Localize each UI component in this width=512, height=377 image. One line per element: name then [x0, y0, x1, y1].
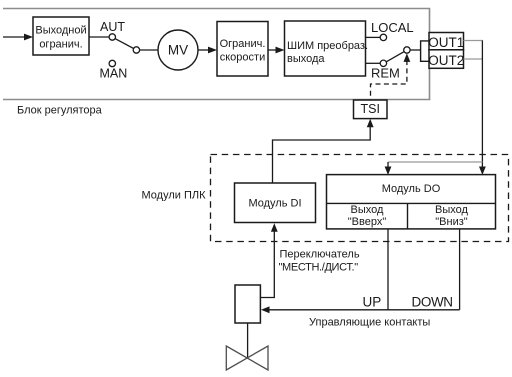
arrowhead input	[24, 34, 33, 41]
contact common right	[404, 47, 410, 53]
wire input	[3, 36, 27, 38]
svg-text:DOWN: DOWN	[412, 295, 453, 310]
block Выходной огранич.	[33, 17, 89, 55]
wire OUT2 right	[464, 58, 484, 60]
arrowhead into DO left	[385, 167, 392, 176]
valve stem	[247, 323, 249, 358]
svg-text:скорости: скорости	[220, 52, 265, 64]
svg-text:Огранич.: Огранич.	[220, 38, 266, 50]
PLC modules dashed box	[211, 155, 509, 242]
block Модуль DO	[327, 175, 496, 229]
svg-text:огранич.: огранич.	[39, 39, 82, 51]
svg-text:Переключатель: Переключатель	[280, 249, 360, 261]
wire control contacts to actuator	[267, 309, 460, 311]
valve body	[226, 346, 268, 370]
svg-text:Управляющие контакты: Управляющие контакты	[309, 317, 430, 329]
svg-text:выхода: выхода	[287, 53, 325, 65]
wire down to DO module	[481, 41, 483, 170]
actuator	[235, 285, 260, 323]
svg-text:OUT1: OUT1	[428, 35, 464, 50]
block ШИМ преобраз. выхода	[285, 21, 366, 76]
arrowhead into speed limiter	[208, 47, 217, 54]
arrowhead into TSI bottom	[367, 119, 374, 128]
wire common->fork	[410, 49, 421, 51]
contact REM	[380, 60, 386, 66]
contact MAN	[109, 60, 115, 66]
svg-text:REM: REM	[371, 66, 400, 81]
svg-text:Модуль DI: Модуль DI	[248, 198, 301, 210]
arrowhead dashed into common contact	[404, 53, 411, 62]
svg-text:OUT2: OUT2	[428, 53, 464, 68]
wire PWM->REM contact	[366, 62, 381, 64]
svg-text:Выход: Выход	[435, 204, 468, 216]
wire speed limiter->PWM	[268, 49, 279, 51]
svg-text:MV: MV	[168, 43, 188, 58]
DO divider horizontal	[327, 202, 496, 204]
wire PWM->LOCAL contact	[366, 36, 381, 38]
svg-text:ШИМ преобраз.: ШИМ преобраз.	[287, 40, 368, 52]
arrowhead into actuator	[261, 306, 270, 313]
contact common left	[133, 47, 139, 53]
svg-text:Блок регулятора: Блок регулятора	[17, 105, 103, 117]
svg-text:TSI: TSI	[360, 102, 379, 116]
dashed control wire from TSI	[371, 60, 407, 100]
svg-text:"Вверх": "Вверх"	[348, 216, 387, 228]
svg-text:Выходной: Выходной	[35, 25, 86, 37]
block TSI	[354, 100, 388, 119]
wire UP down from DO	[387, 229, 389, 310]
wire tee to left arrow	[388, 161, 482, 163]
svg-text:UP: UP	[363, 295, 382, 310]
svg-text:Модуль DO: Модуль DO	[382, 183, 441, 195]
arrowhead into PWM	[276, 47, 285, 54]
wire DOWN down from DO	[459, 229, 461, 310]
terminal OUT2	[429, 50, 464, 69]
wire OUT1 right	[464, 40, 484, 42]
svg-text:Модули ПЛК: Модули ПЛК	[142, 190, 207, 202]
wire to AUT contact	[89, 36, 109, 38]
svg-text:"Вниз": "Вниз"	[435, 216, 468, 228]
block Модуль DI	[235, 183, 316, 223]
svg-text:"МЕСТН./ДИСТ.": "МЕСТН./ДИСТ."	[279, 262, 359, 274]
svg-text:AUT: AUT	[100, 20, 125, 34]
servo motor MV	[158, 30, 198, 70]
contact LOCAL	[380, 34, 386, 40]
regulator block outer box	[3, 9, 430, 100]
svg-text:MAN: MAN	[100, 67, 128, 81]
arrowhead into DI bottom	[271, 223, 278, 232]
svg-text:Выход: Выход	[351, 204, 384, 216]
fork bracket to OUT1/OUT2	[421, 41, 429, 61]
arrowhead into DO right	[479, 167, 486, 176]
switch blade AUT->common	[115, 39, 134, 49]
switch blade REM->common	[386, 52, 404, 62]
wire local/remote switch to DI	[260, 225, 274, 298]
wire common->MV	[140, 49, 158, 51]
wire MV->speed limiter	[198, 49, 211, 51]
contact AUT	[109, 34, 115, 40]
DO divider vertical	[407, 203, 409, 229]
wire DI module up to TSI	[273, 124, 371, 183]
wire short down into DO left	[387, 162, 389, 170]
terminal OUT1	[429, 33, 464, 50]
svg-text:LOCAL: LOCAL	[371, 20, 414, 35]
block Огранич. скорости	[217, 22, 268, 77]
